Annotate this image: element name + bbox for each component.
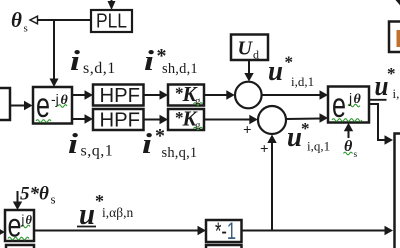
svg-text:HPF: HPF xyxy=(100,85,141,107)
svg-text:θ: θ xyxy=(344,138,353,155)
svg-text:i,q,1: i,q,1 xyxy=(307,139,330,154)
svg-text:i,d,1: i,d,1 xyxy=(291,74,314,89)
svg-text:θ: θ xyxy=(354,92,362,107)
svg-text:i: i xyxy=(144,46,154,77)
svg-text:sh,d,1: sh,d,1 xyxy=(162,61,198,77)
svg-text:*-1: *-1 xyxy=(215,218,236,245)
svg-text:d: d xyxy=(253,48,259,62)
svg-text:j: j xyxy=(21,213,25,227)
svg-text:*: * xyxy=(285,53,294,72)
svg-text:e: e xyxy=(8,207,22,244)
svg-text:U: U xyxy=(238,38,254,60)
svg-text:sh,q,1: sh,q,1 xyxy=(162,145,198,161)
svg-text:g: g xyxy=(195,95,201,107)
svg-text:+: + xyxy=(260,142,269,158)
svg-text:θ: θ xyxy=(11,8,22,32)
svg-text:i: i xyxy=(142,129,152,160)
svg-text:s: s xyxy=(24,23,28,35)
svg-text:s: s xyxy=(51,192,56,207)
svg-text:HPF: HPF xyxy=(100,110,141,132)
svg-text:i: i xyxy=(70,46,80,77)
svg-text:i: i xyxy=(68,129,78,160)
svg-text:PLL: PLL xyxy=(96,11,127,33)
svg-text:u: u xyxy=(287,121,302,153)
svg-text:g: g xyxy=(195,120,201,132)
svg-text:e: e xyxy=(332,86,346,125)
svg-text:u: u xyxy=(268,55,283,87)
svg-text:θ: θ xyxy=(61,93,69,108)
svg-text:+: + xyxy=(243,123,252,139)
svg-text:*: * xyxy=(387,64,396,83)
svg-text:j: j xyxy=(348,90,352,106)
svg-text:*: * xyxy=(301,119,310,138)
svg-text:i,αβ,n: i,αβ,n xyxy=(102,205,133,220)
svg-text:s,d,1: s,d,1 xyxy=(83,60,116,77)
svg-text:e: e xyxy=(36,86,50,125)
svg-text:θ: θ xyxy=(26,213,33,227)
svg-text:-j: -j xyxy=(51,91,59,107)
svg-text:5*θ: 5*θ xyxy=(20,184,49,205)
svg-text:*: * xyxy=(155,125,165,147)
svg-text:s,q,1: s,q,1 xyxy=(81,143,114,160)
svg-text:i,: i, xyxy=(393,86,400,101)
svg-text:s: s xyxy=(354,150,358,160)
